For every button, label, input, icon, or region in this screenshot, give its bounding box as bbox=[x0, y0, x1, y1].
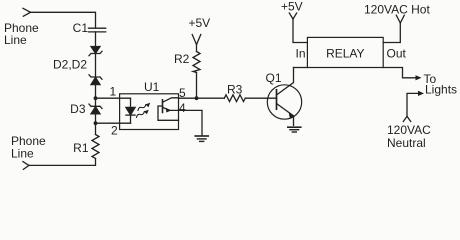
Q1 collector bbox=[277, 68, 294, 96]
wire relay Out to lights bbox=[383, 68, 418, 78]
svg-text:Neutral: Neutral bbox=[387, 136, 426, 150]
wire U1 pin 4 to ground bbox=[179, 110, 203, 135]
Q1 emitter with arrow bbox=[277, 104, 295, 126]
wire D1 to D2 bbox=[95, 54, 97, 78]
U1 internal LED lead from pin 1 bbox=[130, 98, 132, 107]
resistor R3 bbox=[224, 95, 245, 102]
svg-text:D3: D3 bbox=[70, 102, 86, 116]
resistor R2 bbox=[193, 52, 200, 73]
Q1 base bar bbox=[276, 90, 278, 109]
diode D1 (zener, pointing down) bbox=[89, 47, 102, 56]
svg-text:In: In bbox=[295, 47, 305, 61]
wire node A to U1 pin 1 bbox=[96, 97, 131, 99]
+5V supply arrow above R2 bbox=[192, 35, 201, 45]
svg-text:Out: Out bbox=[387, 47, 407, 61]
svg-text:1: 1 bbox=[110, 85, 117, 99]
svg-text:+5V: +5V bbox=[281, 0, 303, 14]
wire +5V to R2 bbox=[196, 45, 198, 52]
relay box bbox=[307, 37, 383, 67]
node C junction dot bbox=[195, 96, 199, 100]
phone line bottom off-page arrow bbox=[23, 162, 29, 170]
transistor Q1 circle bbox=[267, 85, 301, 119]
resistor R1 bbox=[92, 135, 99, 159]
wire node B to U1 pin 2 bbox=[96, 122, 131, 124]
wire R3 to Q1 base bbox=[245, 97, 276, 99]
U1 phototransistor base lead bbox=[158, 106, 179, 120]
phone line top off-page arrow bbox=[23, 8, 31, 16]
ground (Q1 emitter) bbox=[288, 127, 301, 132]
svg-text:R2: R2 bbox=[174, 52, 190, 66]
wire R2 to node C bbox=[196, 73, 198, 99]
node B junction dot bbox=[94, 121, 98, 125]
U1 phototransistor collector to pin 5 bbox=[163, 98, 179, 103]
U1 phototransistor base bar bbox=[162, 100, 164, 113]
wire +5V to relay left top bbox=[293, 19, 307, 43]
wire node B to R1 bbox=[95, 123, 97, 134]
svg-text:Line: Line bbox=[11, 147, 34, 161]
svg-text:120VAC: 120VAC bbox=[387, 123, 431, 137]
wire 120VAC Hot to relay right top bbox=[383, 23, 400, 43]
svg-text:5: 5 bbox=[179, 86, 186, 100]
wire U1 pin 5 to node C bbox=[179, 97, 197, 99]
svg-text:4: 4 bbox=[179, 101, 186, 115]
node A junction dot bbox=[94, 96, 98, 100]
svg-text:+5V: +5V bbox=[189, 16, 211, 30]
svg-text:120VAC Hot: 120VAC Hot bbox=[364, 3, 430, 17]
svg-text:RELAY: RELAY bbox=[326, 46, 364, 60]
svg-text:D2,D2: D2,D2 bbox=[53, 58, 87, 72]
svg-text:Q1: Q1 bbox=[266, 71, 282, 85]
120VAC Hot off-page arrow bbox=[396, 15, 404, 23]
svg-text:Lights: Lights bbox=[425, 83, 457, 97]
svg-text:R3: R3 bbox=[227, 83, 243, 97]
U1 internal LED lead to pin 2 bbox=[130, 115, 132, 123]
wire Q1 collector to relay In bbox=[294, 67, 308, 69]
svg-text:Line: Line bbox=[4, 33, 27, 47]
diode D2 (zener, pointing up) bbox=[89, 75, 102, 85]
svg-text:C1: C1 bbox=[73, 21, 89, 35]
U1 light arrow 1 bbox=[137, 102, 152, 111]
svg-text:R1: R1 bbox=[73, 141, 89, 155]
arrowhead Lights neutral bbox=[418, 91, 424, 96]
wire R1 to bottom phone line bbox=[29, 159, 96, 166]
U1 light arrow 2 bbox=[135, 109, 150, 118]
capacitor C1 bbox=[89, 28, 106, 32]
wire top phone line to C1 bbox=[31, 12, 96, 28]
wire node A to D3 bbox=[95, 98, 97, 106]
U1 internal LED (pointing down) bbox=[126, 107, 135, 115]
optocoupler U1 box bbox=[120, 94, 179, 130]
ground (U1 pin 4) bbox=[195, 136, 208, 141]
svg-text:U1: U1 bbox=[144, 80, 160, 94]
svg-text:2: 2 bbox=[111, 124, 118, 138]
wire 120VAC Neutral to lights bbox=[407, 93, 421, 116]
U1 phototransistor emitter to pin 4 bbox=[163, 107, 179, 112]
arrowhead To lights bbox=[416, 75, 422, 80]
diode D3 (zener, pointing up) bbox=[89, 104, 102, 114]
120VAC Neutral off-page arrow bbox=[403, 116, 410, 121]
wire node C to R3 bbox=[197, 97, 225, 99]
+5V supply arrow relay coil bbox=[289, 13, 296, 19]
wire C1 to D1 bbox=[95, 32, 97, 47]
wire D2 to node A bbox=[95, 85, 97, 99]
wire D3 to node B bbox=[95, 114, 97, 123]
